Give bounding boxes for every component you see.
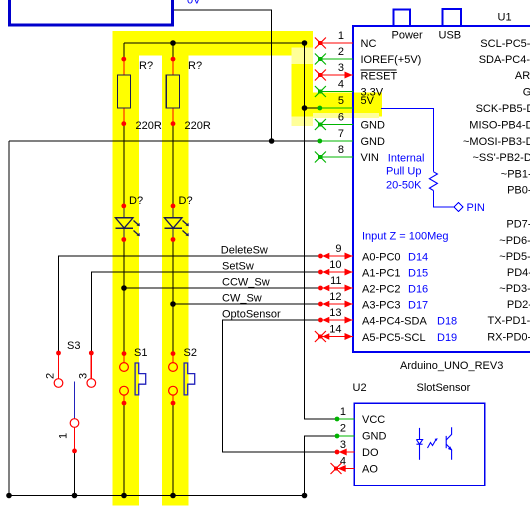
wire GND horizontal rail xyxy=(9,140,318,142)
svg-text:2: 2 xyxy=(338,46,344,58)
svg-text:D17: D17 xyxy=(408,300,428,312)
svg-text:12: 12 xyxy=(329,291,341,303)
U2 pin 3 DO xyxy=(335,439,379,459)
junction S1 at bottom rail xyxy=(121,493,127,499)
svg-text:PB0-D8: PB0-D8 xyxy=(507,185,530,197)
wire DeleteSw xyxy=(59,256,319,353)
svg-text:RESET: RESET xyxy=(361,71,398,83)
svg-text:PIN: PIN xyxy=(467,202,485,214)
svg-text:S1: S1 xyxy=(134,347,147,359)
svg-text:CCW_Sw: CCW_Sw xyxy=(222,277,270,289)
svg-text:R?: R? xyxy=(188,60,202,72)
svg-text:SDA-PC4-ADC4: SDA-PC4-ADC4 xyxy=(479,54,530,66)
wire 5V top horizontal xyxy=(124,42,305,44)
svg-text:SCL-PC5-ADC5: SCL-PC5-ADC5 xyxy=(480,38,530,50)
junction CCW_Sw xyxy=(121,285,127,291)
U1 pin 11 A2 xyxy=(318,275,428,296)
net highlight 5V band pale tail xyxy=(292,117,314,127)
junction S3 at bottom rail xyxy=(72,493,78,499)
wire 5V to pin5 xyxy=(305,107,318,109)
svg-text:13: 13 xyxy=(329,307,341,319)
junction CW_Sw xyxy=(170,301,176,307)
svg-text:OptoSensor: OptoSensor xyxy=(222,309,281,321)
U1 pin 8 VIN xyxy=(315,144,379,164)
svg-text:4: 4 xyxy=(340,456,346,468)
svg-text:9: 9 xyxy=(335,243,341,255)
svg-text:~PD6-D6: ~PD6-D6 xyxy=(499,235,530,247)
junction 5V at pin5 row xyxy=(302,105,308,111)
wire CW_Sw xyxy=(173,303,319,305)
svg-text:A0-PC0: A0-PC0 xyxy=(362,252,401,264)
svg-text:1: 1 xyxy=(340,406,346,418)
U1 pin 2 IOREF xyxy=(315,46,421,66)
U1 pin 5 5V xyxy=(317,95,374,110)
U2 pin 2 GND xyxy=(335,423,387,443)
U1 pin 7 GND xyxy=(317,128,385,148)
svg-text:GND: GND xyxy=(362,431,387,443)
U1 pin 6 GND xyxy=(315,112,385,132)
junction S2 at bottom rail xyxy=(170,493,176,499)
U1 pin 12 A3 xyxy=(318,291,428,312)
svg-text:A5-PC5-SCL: A5-PC5-SCL xyxy=(362,332,426,344)
junction bottom rail right end xyxy=(302,493,308,499)
svg-text:MISO-PB4-D12: MISO-PB4-D12 xyxy=(469,120,530,132)
wire S3 pole to bottom rail xyxy=(74,451,76,496)
svg-text:AREF: AREF xyxy=(515,70,530,82)
op U2 SlotSensor box xyxy=(354,403,484,485)
wire 0V from supply box to right xyxy=(174,10,272,141)
svg-text:A3-PC3: A3-PC3 xyxy=(362,300,401,312)
svg-text:5V: 5V xyxy=(361,95,375,107)
switch S1 xyxy=(120,351,146,405)
svg-text:0V: 0V xyxy=(187,0,201,6)
svg-text:7: 7 xyxy=(338,128,344,140)
svg-text:NC: NC xyxy=(361,38,377,50)
svg-text:8: 8 xyxy=(338,144,344,156)
svg-text:A1-PC1: A1-PC1 xyxy=(362,268,401,280)
wire OptoSensor xyxy=(223,320,338,452)
svg-text:SlotSensor: SlotSensor xyxy=(417,382,471,394)
svg-text:2: 2 xyxy=(340,423,346,435)
svg-text:D?: D? xyxy=(129,195,143,207)
svg-text:GND: GND xyxy=(361,120,386,132)
svg-text:U2: U2 xyxy=(353,382,367,394)
svg-text:D19: D19 xyxy=(437,332,457,344)
svg-text:DO: DO xyxy=(362,447,379,459)
U1 pin 3 RESET xyxy=(315,62,398,83)
LED D1 xyxy=(115,206,139,240)
svg-text:220R: 220R xyxy=(136,120,162,132)
net highlight 5V horizontal band xyxy=(113,31,314,56)
svg-text:D15: D15 xyxy=(408,268,428,280)
U1 USB tab xyxy=(443,9,462,26)
wire SetSw xyxy=(91,272,318,353)
wire GND left vertical xyxy=(8,141,10,496)
svg-text:SCK-PB5-D13: SCK-PB5-D13 xyxy=(476,103,530,115)
svg-text:3: 3 xyxy=(340,439,346,451)
svg-text:U1: U1 xyxy=(498,12,512,24)
U1 internal pull-up circuit xyxy=(381,108,463,211)
net highlight 5V pin row band xyxy=(292,93,383,117)
U2 pin 4 AO xyxy=(331,456,379,476)
U1 pin 13 A4 xyxy=(318,307,457,328)
svg-text:5: 5 xyxy=(338,95,344,107)
svg-text:14: 14 xyxy=(329,324,341,336)
wire S1 chain vertical xyxy=(123,43,125,59)
svg-text:PD7-D7: PD7-D7 xyxy=(506,219,530,231)
wire CCW_Sw xyxy=(124,287,319,289)
svg-text:AO: AO xyxy=(362,464,378,476)
svg-text:3: 3 xyxy=(338,62,344,74)
svg-text:VIN: VIN xyxy=(361,152,379,164)
svg-text:Pull Up: Pull Up xyxy=(386,166,421,178)
switch S3 xyxy=(54,351,95,454)
svg-text:Power: Power xyxy=(392,30,424,42)
svg-text:PD4-D4: PD4-D4 xyxy=(507,267,530,279)
svg-text:DeleteSw: DeleteSw xyxy=(221,245,268,257)
U1 pin 10 A1 xyxy=(318,259,428,280)
power supply box (top left) xyxy=(10,0,173,25)
resistor R1 xyxy=(117,57,130,126)
op U1 Arduino box xyxy=(353,26,530,352)
svg-text:~SS'-PB2-D10: ~SS'-PB2-D10 xyxy=(473,152,530,164)
LED D2 xyxy=(164,206,188,240)
junction 5V at pin1 row xyxy=(302,40,308,46)
U1 Power tab xyxy=(394,10,411,27)
svg-text:R?: R? xyxy=(139,60,153,72)
net highlight CW_Sw vertical band xyxy=(162,31,189,506)
svg-text:IOREF(+5V): IOREF(+5V) xyxy=(361,54,422,66)
svg-text:A2-PC2: A2-PC2 xyxy=(362,284,401,296)
svg-text:D18: D18 xyxy=(437,316,457,328)
svg-text:RX-PD0-D0: RX-PD0-D0 xyxy=(487,332,530,344)
wire 5V vertical rail xyxy=(305,43,335,419)
svg-text:6: 6 xyxy=(338,112,344,124)
svg-text:Arduino_UNO_REV3: Arduino_UNO_REV3 xyxy=(400,360,503,372)
svg-text:D?: D? xyxy=(179,195,193,207)
svg-text:2: 2 xyxy=(45,373,57,379)
svg-text:SetSw: SetSw xyxy=(222,261,254,273)
net highlight 5V vertical band xyxy=(292,48,314,65)
svg-text:10: 10 xyxy=(329,259,341,271)
svg-text:CW_Sw: CW_Sw xyxy=(222,293,262,305)
U2 opto symbol xyxy=(416,427,452,460)
svg-text:1: 1 xyxy=(338,30,344,42)
svg-text:20-50K: 20-50K xyxy=(386,179,422,191)
svg-text:4: 4 xyxy=(338,79,344,91)
resistor R2 xyxy=(166,57,179,126)
svg-text:D16: D16 xyxy=(408,284,428,296)
svg-text:A4-PC4-SDA: A4-PC4-SDA xyxy=(362,316,427,328)
U1 pin 14 A5 xyxy=(315,324,457,345)
svg-text:TX-PD1-D1: TX-PD1-D1 xyxy=(488,315,530,327)
wire S2 chain vertical xyxy=(172,43,174,59)
svg-text:11: 11 xyxy=(330,275,341,287)
svg-text:~PB1-D9: ~PB1-D9 xyxy=(501,169,530,181)
wire U2 GND to bottom rail xyxy=(305,436,338,496)
svg-text:PD2-D2: PD2-D2 xyxy=(507,299,530,311)
svg-text:VCC: VCC xyxy=(362,414,385,426)
junction bottom-left corner xyxy=(6,493,12,499)
svg-text:~MOSI-PB3-D11: ~MOSI-PB3-D11 xyxy=(463,136,530,148)
svg-text:S2: S2 xyxy=(184,347,197,359)
switch S2 xyxy=(169,351,195,405)
svg-text:Internal: Internal xyxy=(388,153,425,165)
U1 right side pin names xyxy=(463,38,530,344)
svg-text:1: 1 xyxy=(58,433,70,439)
svg-text:~PD3-D3: ~PD3-D3 xyxy=(499,283,530,295)
svg-text:3: 3 xyxy=(78,373,90,379)
U1 pin 9 A0 xyxy=(318,243,428,264)
svg-text:USB: USB xyxy=(439,30,462,42)
svg-text:D14: D14 xyxy=(408,252,428,264)
net highlight CCW_Sw vertical band xyxy=(113,31,140,506)
svg-text:220R: 220R xyxy=(185,120,211,132)
svg-text:GND: GND xyxy=(523,87,530,99)
svg-text:GND: GND xyxy=(361,136,386,148)
U1 pin 4 3.3V xyxy=(315,79,384,99)
svg-text:S3: S3 xyxy=(67,340,80,352)
svg-text:~PD5-D5: ~PD5-D5 xyxy=(499,251,530,263)
U2 pin 1 VCC xyxy=(335,406,386,426)
wire GND bottom rail xyxy=(9,495,305,497)
junction on 0V vertical at GND rail xyxy=(269,138,275,144)
U1 pin 1 NC xyxy=(315,30,377,50)
junction R2 branch xyxy=(170,40,176,46)
svg-text:Input Z = 100Meg: Input Z = 100Meg xyxy=(362,231,449,243)
